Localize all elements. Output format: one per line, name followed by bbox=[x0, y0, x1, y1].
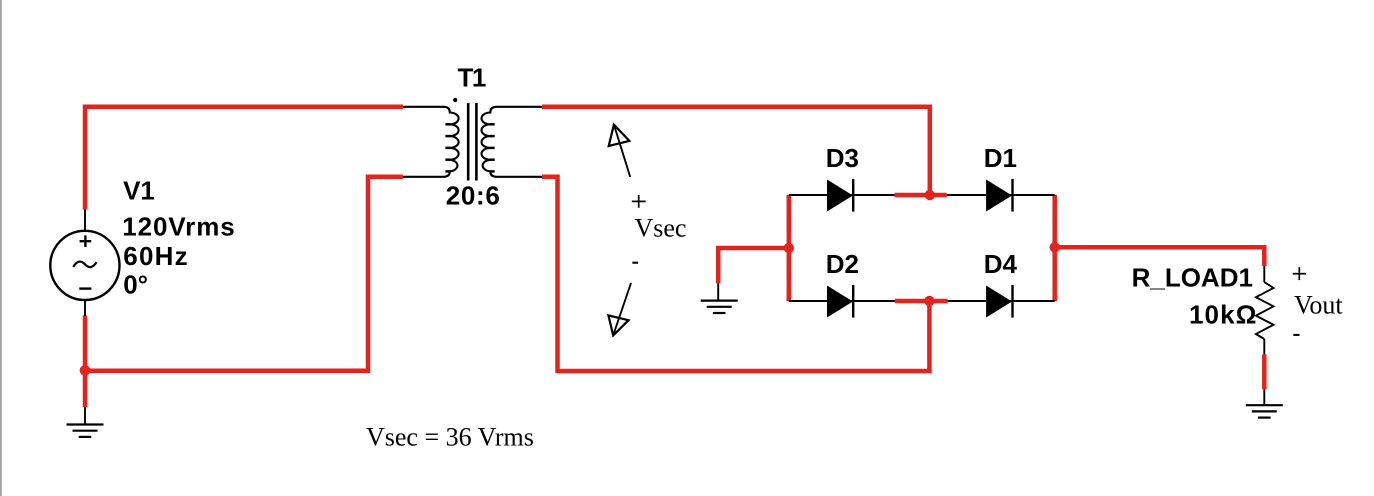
Vsec labels bbox=[632, 195, 687, 263]
annotation arrow down bbox=[608, 283, 631, 336]
annotation arrow up bbox=[609, 125, 631, 177]
wire bbox=[947, 194, 1055, 196]
junction bbox=[80, 365, 91, 376]
wire bbox=[787, 195, 792, 301]
wire bbox=[542, 177, 929, 371]
svg-text:D4: D4 bbox=[984, 249, 1018, 279]
wire bbox=[894, 193, 946, 198]
svg-text:V1: V1 bbox=[123, 176, 155, 206]
ac source V1 bbox=[50, 210, 119, 317]
wire bbox=[1052, 195, 1057, 301]
ground bbox=[67, 407, 104, 437]
wire bbox=[1262, 354, 1267, 389]
ground bbox=[1246, 389, 1283, 417]
transformer T1 bbox=[403, 98, 542, 181]
svg-text:10kΩ: 10kΩ bbox=[1189, 299, 1258, 329]
svg-text:Vout: Vout bbox=[1294, 291, 1343, 320]
R_LOAD1 value labels bbox=[1132, 262, 1258, 329]
diode D3 bbox=[827, 179, 853, 212]
svg-text:20:6: 20:6 bbox=[446, 181, 501, 211]
wire bbox=[895, 299, 948, 304]
junction bbox=[784, 243, 794, 253]
junction bbox=[1050, 242, 1060, 252]
svg-text:60Hz: 60Hz bbox=[123, 241, 189, 271]
wire bbox=[789, 194, 895, 196]
wire bbox=[789, 300, 895, 302]
ground bbox=[701, 283, 738, 313]
diode D1 bbox=[986, 179, 1012, 212]
wire bbox=[83, 316, 88, 408]
diode D2 bbox=[827, 285, 853, 318]
wire bbox=[1055, 247, 1265, 266]
svg-text:D3: D3 bbox=[826, 143, 859, 173]
resistor R_LOAD1 bbox=[1256, 266, 1274, 354]
svg-text:Vsec: Vsec bbox=[635, 214, 687, 243]
Vout labels bbox=[1293, 267, 1344, 335]
svg-text:D2: D2 bbox=[826, 249, 859, 279]
wire bbox=[85, 107, 403, 210]
svg-text:D1: D1 bbox=[984, 143, 1017, 173]
V1 value labels bbox=[122, 176, 235, 300]
svg-text:Vsec = 36 Vrms: Vsec = 36 Vrms bbox=[366, 422, 534, 451]
junction bbox=[924, 296, 934, 306]
svg-text:120Vrms: 120Vrms bbox=[122, 212, 235, 242]
wire bbox=[85, 177, 403, 371]
svg-text:T1: T1 bbox=[458, 63, 486, 93]
wire bbox=[542, 107, 930, 195]
svg-text:R_LOAD1: R_LOAD1 bbox=[1132, 262, 1253, 292]
diode D4 bbox=[986, 285, 1012, 318]
wire bbox=[718, 248, 789, 283]
T1 value labels bbox=[446, 63, 501, 211]
junction bbox=[925, 190, 935, 200]
svg-text:0°: 0° bbox=[123, 269, 148, 299]
wire bbox=[948, 300, 1055, 302]
